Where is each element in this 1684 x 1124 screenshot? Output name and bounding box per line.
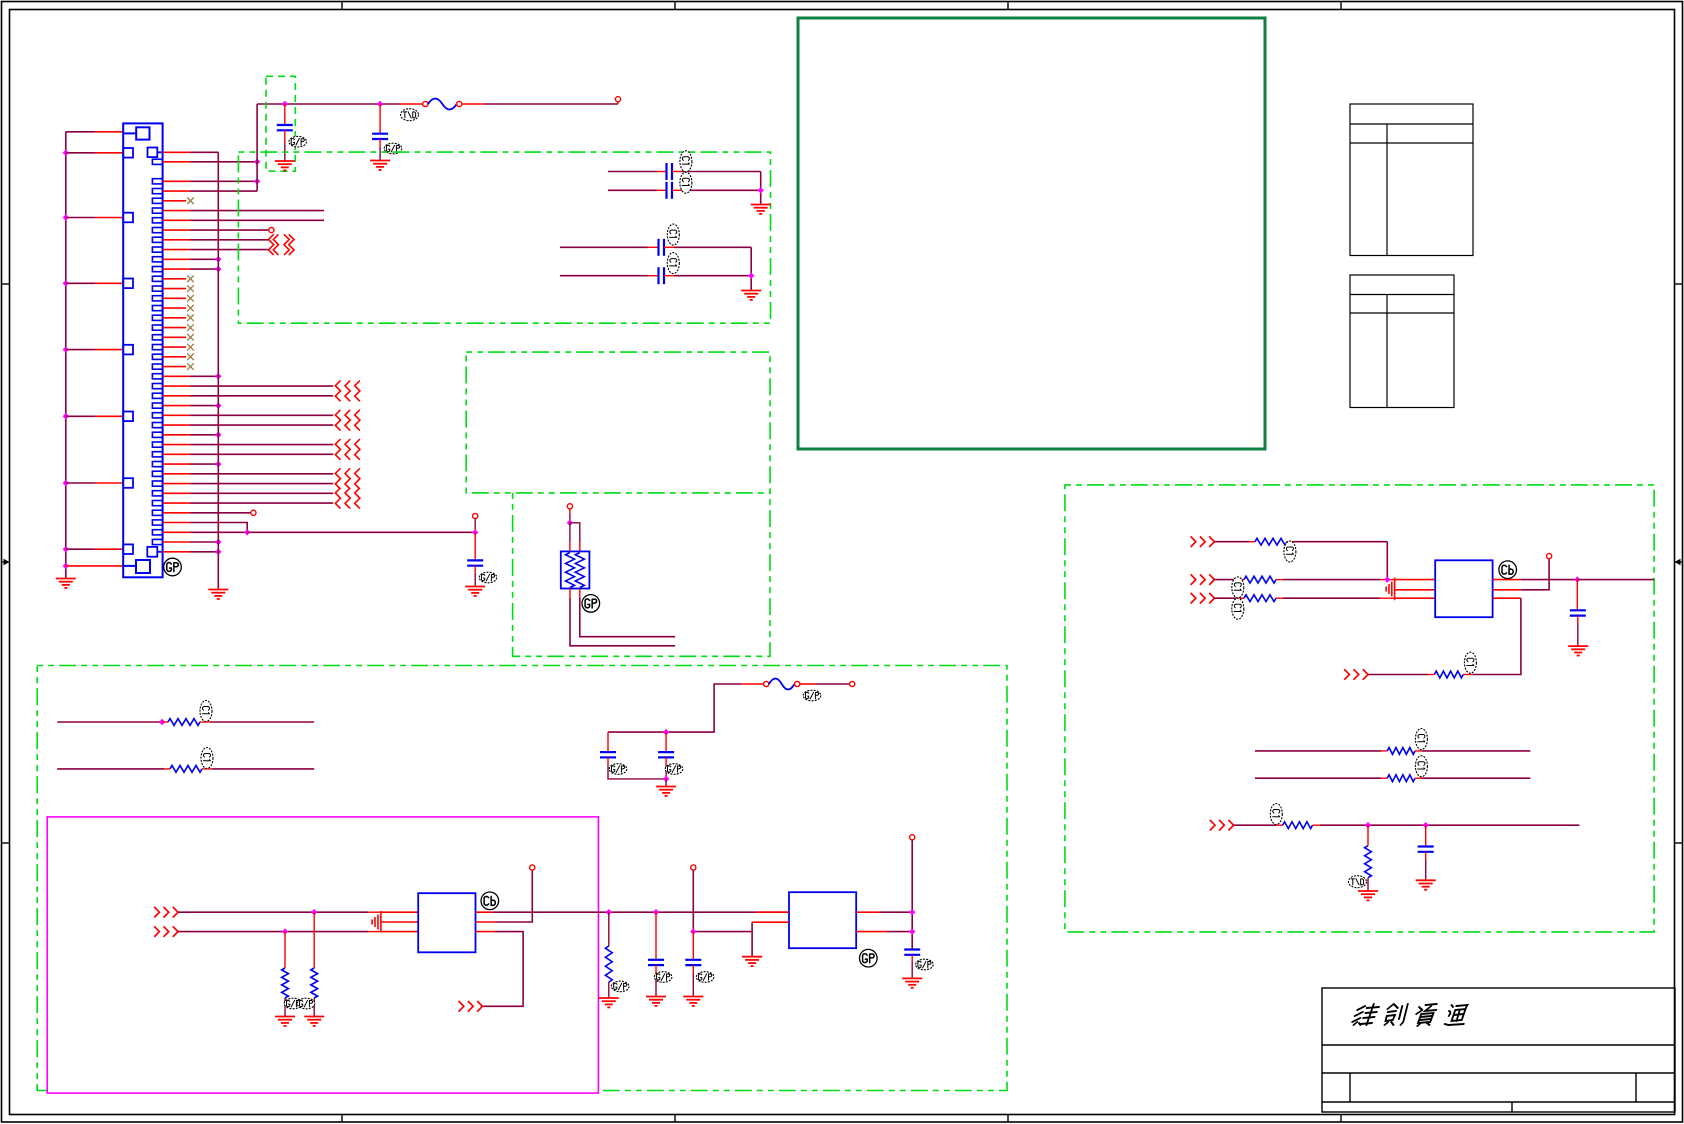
value label xyxy=(667,224,679,245)
wire xyxy=(190,473,333,475)
off-page arrows in xyxy=(1191,536,1215,547)
junction xyxy=(254,178,260,184)
block U100 (empty sheet block) xyxy=(798,18,1265,449)
wire xyxy=(692,870,694,932)
net label G/P xyxy=(611,981,629,992)
table 2 xyxy=(1350,275,1454,408)
component label Cb xyxy=(1499,561,1517,579)
wire pin stub xyxy=(163,551,190,553)
junction xyxy=(567,520,573,526)
wire xyxy=(1276,824,1283,826)
wire xyxy=(1381,777,1387,779)
net label G/P xyxy=(479,572,497,583)
wire xyxy=(57,721,162,723)
connector pin (right) xyxy=(152,432,162,437)
wire pin stub xyxy=(163,502,190,504)
wire pin stub xyxy=(95,482,123,484)
wire pin stub xyxy=(66,565,124,567)
wire xyxy=(474,532,476,560)
border centre arrow right xyxy=(1675,559,1683,565)
ground (left bus) xyxy=(56,579,76,588)
wire xyxy=(1577,579,1654,581)
junction xyxy=(1365,822,1371,828)
sub-section box (magenta) xyxy=(47,817,598,1093)
wire xyxy=(210,721,314,723)
junction xyxy=(215,266,221,272)
wire xyxy=(190,385,333,387)
wire pin stub xyxy=(163,180,190,182)
wire xyxy=(482,932,523,1007)
capacitor C14 xyxy=(1418,847,1434,852)
resistor R9 xyxy=(1434,671,1463,678)
wire pin stub xyxy=(163,151,190,153)
T2 pin xyxy=(1493,589,1521,591)
resistor R2 xyxy=(170,766,202,773)
wire xyxy=(178,911,368,913)
capacitor C10 xyxy=(648,960,664,965)
connector pin (right) xyxy=(152,276,162,281)
ground xyxy=(275,1017,295,1026)
wire pin stub xyxy=(95,282,123,284)
junction xyxy=(215,373,221,379)
transformer T1 pins left xyxy=(381,912,418,931)
wire pin stub xyxy=(163,463,190,465)
wire xyxy=(648,246,659,248)
resistor RP1a xyxy=(566,553,575,588)
junction xyxy=(377,101,383,107)
net label G/P xyxy=(916,959,934,970)
wire xyxy=(190,434,218,436)
wire xyxy=(1283,597,1380,599)
wire pin stub xyxy=(163,434,190,436)
wire xyxy=(1367,825,1369,846)
wire xyxy=(284,130,286,143)
connector pin (left) xyxy=(123,544,133,554)
wire xyxy=(284,932,286,968)
wire top row pin stub xyxy=(95,131,123,133)
resistor pack RP1 body xyxy=(561,551,590,588)
wire xyxy=(1422,777,1530,779)
wire pin stub xyxy=(163,473,190,475)
balun input marker xyxy=(372,911,381,933)
ground xyxy=(275,161,295,170)
junction xyxy=(63,346,69,352)
transformer T2 pins left xyxy=(1395,580,1436,599)
wire xyxy=(474,573,476,586)
ground xyxy=(599,998,619,1007)
junction xyxy=(63,546,69,552)
wire xyxy=(742,683,764,685)
wire xyxy=(190,523,247,533)
off-sheet mark xyxy=(269,234,295,255)
wire xyxy=(313,998,315,1016)
terminal xyxy=(795,681,800,686)
wire pin stub xyxy=(163,356,186,358)
wire xyxy=(887,931,912,933)
wire xyxy=(1276,597,1283,599)
junction xyxy=(909,928,915,934)
border zone ticks bottom xyxy=(342,1115,1341,1123)
no-connect xyxy=(187,334,194,341)
connector pin (right) xyxy=(152,198,162,203)
node stub xyxy=(617,102,619,105)
wire pin stub xyxy=(163,239,190,241)
wire pin stub xyxy=(163,414,190,416)
wire xyxy=(665,732,667,752)
ground xyxy=(741,291,761,300)
wire xyxy=(1472,598,1521,674)
net label G/P xyxy=(696,972,714,983)
connector pin (square, bottom right) xyxy=(147,547,157,557)
wire xyxy=(1415,777,1422,779)
wire xyxy=(751,922,753,956)
net label G/P xyxy=(384,143,402,154)
resistor R13 xyxy=(1365,846,1372,878)
wire xyxy=(492,911,598,913)
junction xyxy=(254,159,260,165)
resistor R3 xyxy=(311,968,318,998)
connector pin (right) xyxy=(152,471,162,476)
terminal xyxy=(457,101,462,106)
wire xyxy=(190,190,257,192)
connector pin (right) xyxy=(152,208,162,213)
wire xyxy=(579,542,581,551)
wire xyxy=(66,152,95,154)
connector pin (right) xyxy=(152,345,162,350)
wire xyxy=(190,492,333,494)
wire xyxy=(57,768,164,770)
junction xyxy=(215,549,221,555)
resistor R12 xyxy=(1283,822,1313,829)
junction xyxy=(215,402,221,408)
section box G xyxy=(513,493,770,656)
no-connect xyxy=(187,276,194,283)
IC U2 body xyxy=(789,892,856,948)
wire xyxy=(674,246,751,248)
ground xyxy=(1568,646,1588,655)
net label G/P xyxy=(803,690,821,701)
wire riser to top rail xyxy=(256,104,258,191)
wire xyxy=(495,870,532,922)
wire pin stub xyxy=(163,483,190,485)
wire pin stub xyxy=(163,249,190,251)
capacitor C5 xyxy=(659,239,665,256)
off-page arrows in xyxy=(1191,593,1215,604)
wire xyxy=(570,523,580,542)
wire xyxy=(190,239,268,241)
wire pin stub xyxy=(163,395,190,397)
wire xyxy=(379,147,381,160)
terminal xyxy=(423,101,428,106)
wire xyxy=(655,965,657,973)
no-connect xyxy=(187,354,194,361)
wire xyxy=(607,757,609,765)
wire pin stub xyxy=(95,548,123,550)
no-connect xyxy=(187,363,194,370)
section box I xyxy=(1065,485,1654,932)
terminal xyxy=(473,513,478,518)
wire xyxy=(66,217,95,219)
junction xyxy=(159,719,165,725)
wire xyxy=(911,840,913,950)
component label Cb xyxy=(481,892,499,910)
wire (to cap C7) xyxy=(247,531,475,533)
border zone ticks top xyxy=(342,2,1341,10)
wire pin stub xyxy=(163,288,186,290)
inductor L2 (bead) xyxy=(769,679,795,690)
junction xyxy=(282,101,288,107)
connector pin (square, top right) xyxy=(148,148,158,158)
wire xyxy=(190,375,218,377)
wire xyxy=(66,349,95,351)
wire xyxy=(379,104,381,134)
wire xyxy=(580,598,675,637)
junction xyxy=(282,928,288,934)
section box H xyxy=(37,666,1007,1091)
wire pin stub xyxy=(95,415,123,417)
wire xyxy=(608,765,666,779)
resistor R11 xyxy=(1387,775,1415,782)
terminal xyxy=(691,865,696,870)
wire xyxy=(608,982,610,998)
connector pin (right) xyxy=(152,159,162,164)
wire xyxy=(1425,852,1427,860)
junction xyxy=(63,150,69,156)
resistor R7 xyxy=(1244,576,1276,583)
wire xyxy=(190,161,257,163)
connector pin (right) xyxy=(152,247,162,252)
connector pin (right) xyxy=(152,364,162,369)
wire xyxy=(190,424,333,426)
connector pin (right) xyxy=(152,481,162,486)
U2 pin xyxy=(756,911,789,913)
wire xyxy=(674,275,751,277)
wire xyxy=(284,998,286,1016)
T1 pin xyxy=(476,911,493,913)
connector pin (right) xyxy=(152,315,162,320)
wire xyxy=(1521,559,1549,590)
wire xyxy=(1249,541,1255,543)
wire pin stub xyxy=(163,512,190,514)
connector pin (right) xyxy=(152,539,162,544)
connector pin (right) xyxy=(152,218,162,223)
net label G/P xyxy=(665,764,683,775)
wire xyxy=(1425,860,1427,880)
wire xyxy=(1368,674,1428,676)
connector pin (right) xyxy=(152,286,162,291)
off-sheet mark xyxy=(335,468,360,489)
wire xyxy=(1381,750,1387,752)
connector pin (right) xyxy=(152,501,162,506)
off-page arrows in xyxy=(1191,574,1215,585)
connector pin (right) xyxy=(152,354,162,359)
wire xyxy=(190,219,324,221)
wire xyxy=(608,912,610,946)
off-page arrows in xyxy=(154,926,178,937)
section box D xyxy=(238,152,770,323)
junction xyxy=(63,563,69,569)
wire xyxy=(657,189,667,191)
wire pin stub xyxy=(163,424,190,426)
connector pin (right) xyxy=(152,237,162,242)
wire xyxy=(190,512,251,514)
wire pin stub xyxy=(163,268,190,270)
transformer T1 body xyxy=(418,893,475,952)
junction xyxy=(215,461,221,467)
capacitor C8 xyxy=(600,752,616,757)
net label G/P xyxy=(609,764,627,775)
wire xyxy=(190,414,333,416)
wire xyxy=(560,275,648,277)
wire top row xyxy=(66,131,95,133)
ground xyxy=(656,787,676,796)
terminal xyxy=(530,865,535,870)
wire xyxy=(368,911,380,913)
connector pin (right) xyxy=(152,228,162,233)
wire xyxy=(657,171,667,173)
wire xyxy=(1238,579,1244,581)
wire xyxy=(1380,597,1395,599)
wire xyxy=(164,768,170,770)
no-connect xyxy=(187,285,194,292)
wire xyxy=(608,171,657,173)
wire xyxy=(1238,597,1244,599)
wire pin stub xyxy=(163,444,190,446)
U2 pin xyxy=(856,911,879,913)
connector pin (right) xyxy=(152,257,162,262)
connector pin (right) xyxy=(152,189,162,194)
net label T\D xyxy=(1348,876,1366,888)
wire xyxy=(190,395,333,397)
no-connect xyxy=(187,295,194,302)
wire xyxy=(570,598,675,646)
junction xyxy=(63,280,69,286)
junction xyxy=(472,529,478,535)
capacitor C1 xyxy=(277,125,293,130)
no-connect xyxy=(187,324,194,331)
wire xyxy=(190,483,333,485)
value label xyxy=(667,253,679,274)
off-sheet mark xyxy=(335,439,360,460)
wire xyxy=(190,531,247,533)
wire xyxy=(313,912,315,968)
ground xyxy=(751,205,771,214)
wire pin stub xyxy=(163,385,190,387)
ground xyxy=(902,978,922,987)
wire xyxy=(1287,541,1294,543)
wire xyxy=(190,541,218,543)
wire pin stub xyxy=(163,492,190,494)
capacitor C7 xyxy=(467,560,483,565)
wire xyxy=(1214,541,1249,543)
resistor R5 xyxy=(605,946,612,982)
junction xyxy=(215,256,221,262)
no-connect xyxy=(187,315,194,322)
wire left bus vertical xyxy=(65,132,67,578)
wire pin stub xyxy=(163,190,190,192)
value label xyxy=(201,748,213,769)
wire xyxy=(190,229,269,231)
node (open terminal) xyxy=(251,510,256,515)
wire xyxy=(1367,878,1369,891)
wire xyxy=(1283,579,1380,581)
net label T\D xyxy=(401,109,419,121)
connector pin (right) xyxy=(152,423,162,428)
wire pin stub xyxy=(163,307,186,309)
wire pin stub xyxy=(163,522,190,524)
connector pin (left) xyxy=(123,412,133,422)
connector CN1 mounting pad top xyxy=(123,127,149,139)
border zone ticks right xyxy=(1675,284,1683,843)
junction xyxy=(215,539,221,545)
wire xyxy=(569,509,571,514)
node (open terminal) xyxy=(269,228,274,233)
balun input marker xyxy=(1386,578,1394,601)
wire xyxy=(1521,579,1577,581)
wire xyxy=(750,247,752,290)
connector pin (right) xyxy=(152,296,162,301)
junction xyxy=(758,187,764,193)
wire xyxy=(368,931,380,933)
wire xyxy=(655,912,657,960)
junction xyxy=(663,729,669,735)
wire xyxy=(399,103,423,105)
wire xyxy=(202,768,212,770)
junction xyxy=(1574,576,1580,582)
wire xyxy=(1576,580,1578,611)
wire top rail xyxy=(257,103,399,105)
junction xyxy=(663,776,669,782)
value label xyxy=(1284,541,1296,562)
value label xyxy=(1415,756,1427,777)
wire pin stub xyxy=(163,541,190,543)
connector pin (right) xyxy=(152,393,162,398)
junction xyxy=(215,432,221,438)
wire right bus vertical xyxy=(217,152,219,589)
wire xyxy=(190,258,218,260)
title block xyxy=(1322,988,1675,1112)
wire xyxy=(485,103,619,105)
no-connect xyxy=(187,305,194,312)
wire xyxy=(1255,750,1381,752)
U2 pin xyxy=(856,931,887,933)
connector pin (left) xyxy=(123,148,133,158)
wire pin stub xyxy=(163,278,186,280)
capacitor C4 xyxy=(667,182,673,199)
capacitor C13 xyxy=(1570,610,1586,615)
border zone ticks left xyxy=(2,284,10,843)
connector pin (right) xyxy=(152,403,162,408)
wire xyxy=(665,757,667,765)
wire xyxy=(1425,825,1427,846)
net label G/P xyxy=(654,972,672,983)
wire xyxy=(672,189,681,191)
connector pin (right) xyxy=(152,510,162,515)
connector pin (right) xyxy=(152,452,162,457)
connector pin (right) xyxy=(152,267,162,272)
connector pin (right) xyxy=(152,413,162,418)
wire pin stub xyxy=(163,336,186,338)
wire xyxy=(66,548,95,550)
terminal xyxy=(1547,554,1552,559)
connector pin (right) xyxy=(152,325,162,330)
connector pin (right) xyxy=(152,374,162,379)
wire xyxy=(879,911,912,913)
connector pin (right) xyxy=(152,335,162,340)
no-connect xyxy=(187,344,194,351)
resistor R6 xyxy=(1255,538,1287,545)
connector CN1 mounting pad bottom xyxy=(123,560,150,573)
